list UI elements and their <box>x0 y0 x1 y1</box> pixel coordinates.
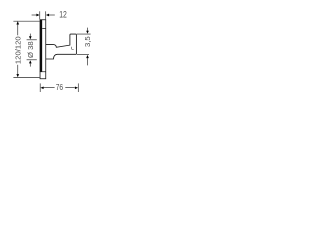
svg-text:3,5: 3,5 <box>83 36 92 47</box>
svg-text:120/120: 120/120 <box>13 36 22 64</box>
svg-text:Ø 38: Ø 38 <box>26 41 35 58</box>
svg-text:12: 12 <box>59 10 67 20</box>
svg-text:76: 76 <box>56 82 63 92</box>
